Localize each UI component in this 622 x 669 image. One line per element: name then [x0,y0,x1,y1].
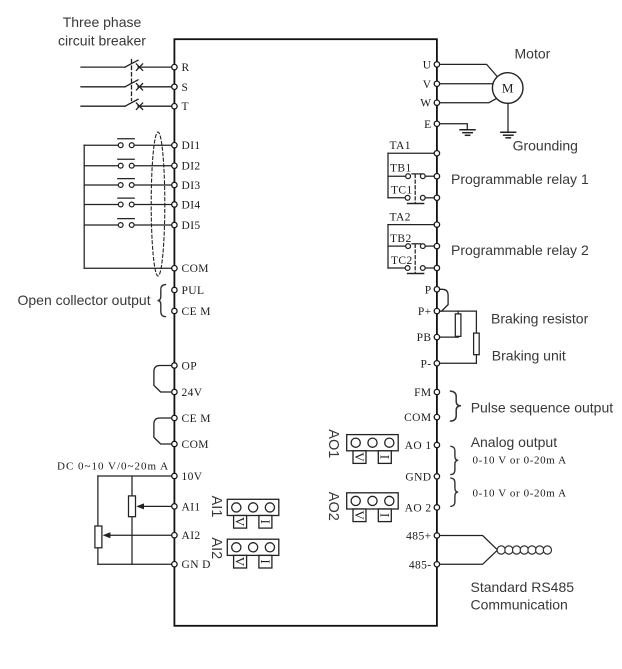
svg-text:PB: PB [417,332,432,344]
svg-text:W: W [420,98,431,110]
wire left branch [97,476,99,564]
svg-text:R: R [182,62,190,74]
svg-text:V: V [352,510,367,520]
terminal TB1 [434,174,439,179]
svg-text:I: I [377,513,392,518]
svg-text:0-10 V or 0-20m A: 0-10 V or 0-20m A [473,488,567,500]
terminal 485+ [406,531,439,543]
jumper block AI1 [208,496,279,528]
motor ground wire [507,103,509,132]
svg-text:Communication: Communication [471,596,568,612]
breaker mechanical link (dashed) [131,60,133,101]
svg-text:PUL: PUL [182,285,205,297]
wire 10V [98,475,174,477]
terminal P [425,284,440,296]
svg-text:I: I [258,559,273,564]
potentiometer AI1 [129,496,136,517]
svg-text:AO 2: AO 2 [405,502,432,514]
terminal 24V [172,387,203,399]
terminal 485- [409,559,440,571]
svg-text:485+: 485+ [406,531,431,543]
svg-text:CE M: CE M [182,413,211,425]
terminal AI2 [172,530,201,542]
svg-text:10V: 10V [182,471,203,483]
terminal S [172,82,189,94]
wire GND [98,563,174,565]
brace PUL/CEM [158,285,166,317]
terminal U [423,59,440,71]
jumper block AO2 [325,492,398,522]
svg-text:GN D: GN D [182,559,211,571]
terminal PUL [172,285,205,297]
brace FM/COM [450,391,461,421]
svg-text:Analog output: Analog output [471,434,558,450]
svg-text:P+: P+ [418,306,432,318]
svg-text:Standard RS485: Standard RS485 [471,579,575,595]
svg-text:T: T [182,101,189,113]
svg-text:0-10 V or 0-20m A: 0-10 V or 0-20m A [473,454,567,466]
terminal CEM upper [172,306,211,318]
braking resistor [457,311,459,314]
braking unit resistor [475,311,477,333]
terminal E [424,119,440,131]
svg-text:P: P [425,284,432,296]
relay 1 [388,140,589,204]
svg-text:U: U [423,59,432,71]
motor M circle [492,73,523,104]
terminal TA2 [434,222,439,227]
wire PB [437,336,458,338]
terminal DI5 [172,220,201,232]
wire V [437,83,493,85]
switch DI5 [84,219,174,228]
terminal P- [420,358,439,370]
wire W [437,98,497,103]
jumper block AO1 [325,429,398,463]
terminal V [423,79,440,91]
svg-text:COM: COM [182,439,209,451]
jumper block AI2 [208,537,279,568]
wire U [437,64,499,78]
terminal AO1 [405,440,440,452]
breaker pole S [81,80,174,90]
terminal OP [172,361,197,373]
E ground symbol [460,130,475,136]
terminal 10V [172,471,203,483]
label: Three phase circuit breaker [58,14,146,49]
svg-text:V: V [233,557,248,567]
potentiometer AI2 [95,526,102,548]
DI common bus wire [83,145,85,268]
contact TC2 [388,267,405,269]
svg-text:V: V [423,79,432,91]
svg-text:AO 1: AO 1 [405,440,432,452]
terminal AI1 [172,501,201,513]
terminal W [420,98,439,110]
shielded cable ellipse (dashed) [151,132,165,276]
brace AO1/GND [451,446,458,474]
svg-text:Grounding: Grounding [513,138,578,154]
terminal R [172,62,190,74]
terminal P+ [418,306,440,318]
relay2 left rail [387,225,389,268]
terminal GND left [172,559,211,571]
terminal TC1 [434,195,439,200]
svg-text:AI2: AI2 [208,537,224,559]
svg-text:Programmable relay 2: Programmable relay 2 [451,242,589,258]
svg-text:V: V [352,452,367,462]
switch DI4 [84,198,174,207]
svg-text:TA2: TA2 [390,212,411,224]
terminal DI3 [172,180,201,192]
terminal TC2 [434,265,439,270]
svg-text:DI4: DI4 [182,200,201,212]
wire AI1 wiper [143,505,174,507]
svg-text:Braking resistor: Braking resistor [491,311,589,327]
contact TB1 [388,175,406,177]
svg-text:24V: 24V [182,387,203,399]
svg-text:I: I [258,519,273,524]
terminal COM right [404,412,440,424]
wire E [437,124,467,130]
breaker pole R [81,60,174,70]
wire TA2 [388,224,437,226]
terminal COM left [172,263,209,275]
terminal TA1 [434,151,439,156]
wire TA1 [388,152,437,154]
switch DI1 [84,139,174,148]
svg-text:TC1: TC1 [391,185,413,197]
svg-text:DI3: DI3 [182,180,201,192]
svg-text:TA1: TA1 [390,140,411,152]
relay 2 [388,212,589,274]
svg-text:FM: FM [414,387,431,399]
relay2 link (dashed) [414,244,416,273]
svg-text:AO1: AO1 [325,429,341,458]
relay1 link (dashed) [414,175,416,204]
terminal T [172,101,189,113]
inverter main box [174,39,437,626]
jumper link OP-24V [154,366,175,393]
svg-text:AO2: AO2 [325,492,341,521]
svg-text:S: S [182,82,189,94]
brace GND/AO2 [451,478,458,506]
wire 485+ [437,536,497,550]
svg-text:M: M [502,81,514,96]
wire inner branch [131,476,133,564]
terminal DI1 [172,140,201,152]
terminal CEM lower [172,413,211,425]
terminal TB2 [434,243,439,248]
breaker pole T [81,99,174,109]
svg-text:Open collector output: Open collector output [18,292,151,308]
terminal FM [414,387,440,399]
terminal AO2 [405,502,440,514]
svg-text:TB1: TB1 [390,163,412,175]
svg-text:circuit breaker: circuit breaker [58,33,146,49]
wire P- [437,362,477,364]
RS485 twisted pair coil [497,546,551,554]
contact TB2 [388,245,406,247]
motor ground symbol [501,132,516,138]
terminal DI4 [172,200,201,212]
svg-text:DC 0~10 V/0~20m A: DC 0~10 V/0~20m A [57,461,169,473]
terminal GND right [405,471,439,483]
svg-text:I: I [377,455,392,460]
svg-text:Programmable relay 1: Programmable relay 1 [451,171,589,187]
jumper link CEM-COM [154,418,175,444]
svg-text:485-: 485- [409,559,432,571]
svg-text:Pulse sequence output: Pulse sequence output [471,400,614,416]
svg-text:Motor: Motor [515,46,551,62]
terminal COM lower [172,439,209,451]
wire AI2 wiper [110,534,175,536]
svg-text:AI1: AI1 [208,496,224,518]
svg-text:COM: COM [404,412,431,424]
svg-text:CE M: CE M [182,306,211,318]
svg-text:Three phase: Three phase [63,14,142,30]
wire P+ [437,310,477,312]
wire 485- [437,550,497,564]
terminal PB [417,332,440,344]
svg-text:COM: COM [182,263,209,275]
svg-text:P-: P- [420,358,431,370]
wire COM [84,267,174,269]
svg-text:DI2: DI2 [182,161,201,173]
switch DI2 [84,159,174,168]
switch DI3 [84,179,174,188]
relay1 left rail [387,153,389,198]
svg-text:E: E [424,119,431,131]
svg-text:TC2: TC2 [391,255,413,267]
svg-text:GND: GND [405,471,431,483]
terminal DI2 [172,161,201,173]
svg-text:V: V [233,517,248,527]
svg-text:AI1: AI1 [182,501,201,513]
svg-text:Braking unit: Braking unit [492,347,566,363]
contact TC1 [388,197,405,199]
jumper link P-P+ [437,289,448,311]
svg-text:AI2: AI2 [182,530,201,542]
svg-text:OP: OP [182,361,198,373]
svg-text:DI5: DI5 [182,220,201,232]
svg-text:DI1: DI1 [182,140,201,152]
